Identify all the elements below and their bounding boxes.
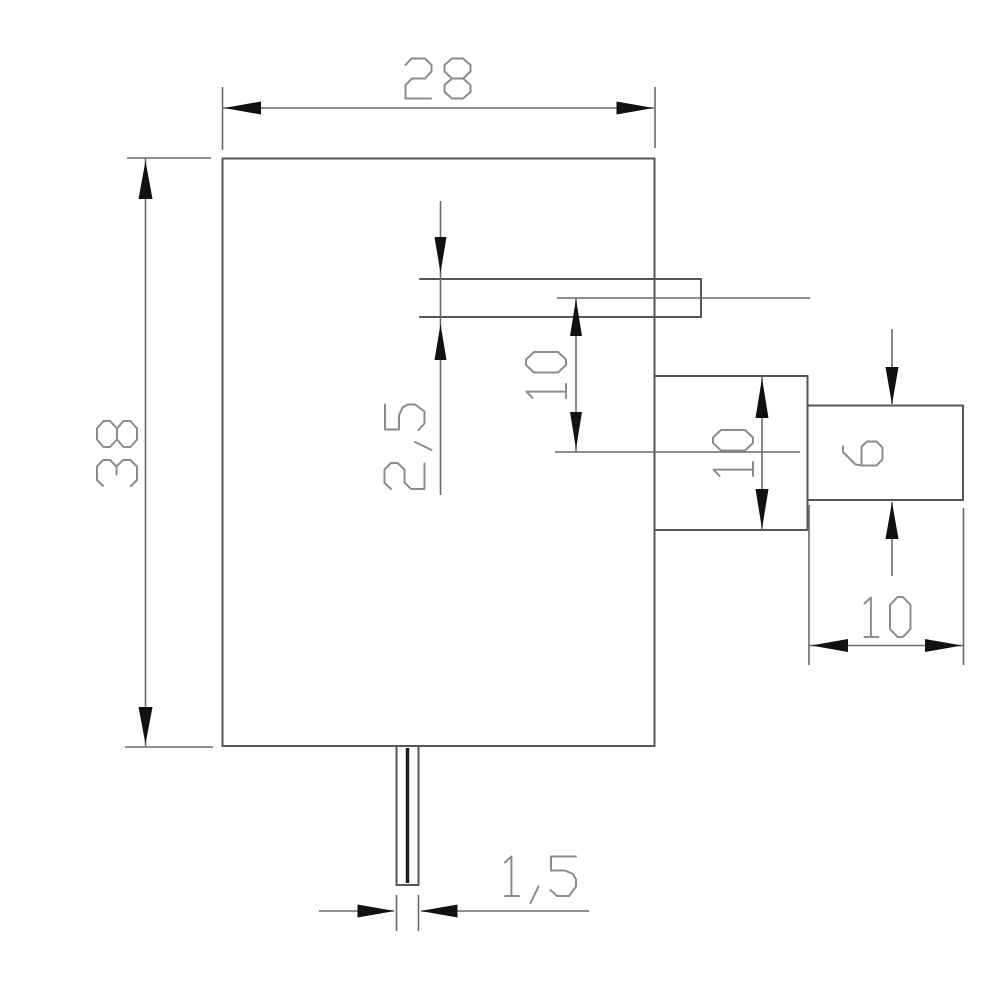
dim 10 slot ref line lower [555,451,800,453]
dim 28 extension left [222,87,224,150]
arrow 6 up [886,502,899,539]
protrusion 1 top [655,375,808,377]
dim 10 bottom extension right [963,508,965,665]
protrusion 1 bottom [655,529,808,531]
arrow 10 bottom left [811,639,848,652]
dim 1,5 tick left [396,895,398,931]
text 38 left rotated [97,421,137,486]
dim 10 slot line [575,298,577,452]
text 1,5 [505,857,576,904]
dim 10 protrusion line [761,377,763,530]
arrow 2,5 down [435,237,447,273]
tab top line [420,278,701,280]
arrow 2,5 up [435,324,447,360]
tab bottom line [420,316,701,318]
main body rectangle [223,159,655,747]
arrow 10 protrusion up [756,378,769,418]
arrow 1,5 left [358,905,395,918]
dim 38 extension bottom [125,746,213,748]
arrow 38 down [139,707,153,744]
dim 1,5 line right segment [421,910,589,912]
dim 28 line [223,107,655,109]
pin center dark line [406,748,410,883]
arrow 6 down [886,367,899,405]
pin bottom cap [397,884,419,886]
text 10 protrusion rotated [713,430,753,476]
text 2,5 rotated [385,405,432,490]
dim 1,5 line left segment [319,910,394,912]
arrow 10 slot up [570,299,582,336]
text 28 top [406,59,471,99]
dim 2,5 line [440,201,442,495]
text 10 bottom [865,597,911,637]
arrow 10 protrusion down [756,489,769,529]
dim 28 extension right [654,87,656,148]
dim 10 bottom line [809,645,964,647]
tab right cap [700,279,702,317]
dim 10 slot ref line upper [557,297,810,299]
pin left line [396,746,398,885]
protrusion 2 bottom [808,499,964,501]
arrow 38 up [139,161,153,199]
protrusion 1 right edge [807,376,809,530]
protrusion 2 right edge [962,406,964,501]
text 6 rotated [843,442,883,466]
dim 38 extension top [127,157,211,159]
arrow 10 slot down [570,412,582,449]
protrusion 2 top [808,405,964,407]
dim 1,5 tick right [418,895,420,931]
dim 6 upper line [891,329,893,404]
arrow 1,5 right [421,905,458,918]
pin right line [418,746,420,885]
arrow 28 left [224,102,261,115]
text 10 slot rotated [526,352,566,398]
dim 6 lower line [891,502,893,576]
dim 38 line [145,159,147,747]
dim 10 bottom extension left [808,505,810,665]
arrow 28 right [617,102,654,115]
arrow 10 bottom right [925,639,962,652]
